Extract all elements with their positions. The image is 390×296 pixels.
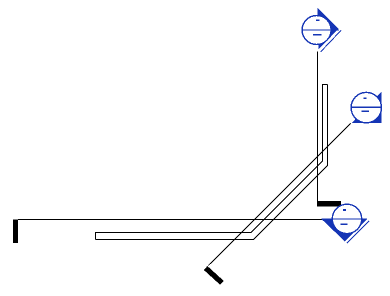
V3 equator line <box>321 218 367 220</box>
V3 circle <box>332 204 361 233</box>
wire: vertical connector from diffuser V1 <box>317 52 319 202</box>
V3 lower dash <box>341 223 348 225</box>
duct side A: left cap, top/left wall <box>96 85 328 240</box>
V1 lower dash <box>313 34 321 36</box>
V2 lower dash <box>362 110 370 112</box>
V3 upper dash <box>343 209 346 211</box>
V2 upper dash <box>364 97 367 99</box>
V1 equator line <box>302 29 339 31</box>
diffuser V2 (right, flow arrow down-right) <box>351 92 382 124</box>
V2 arrow fill <box>352 92 382 124</box>
diffuser V3 (bottom, flow arrow down) <box>321 204 369 243</box>
left duct end tick <box>13 219 18 243</box>
diagonal duct end tick <box>206 268 222 283</box>
V2 circle <box>351 92 381 122</box>
V3 trailing edge outline <box>347 221 369 243</box>
V1 upper dash <box>316 19 320 21</box>
mid duct end tick <box>317 201 341 206</box>
V3 arrow fill <box>321 219 367 241</box>
wire: diagonal connector from diffuser V2 <box>208 123 351 265</box>
wire: horizontal connector to diffuser V3 <box>18 219 322 221</box>
V2 equator line <box>351 106 382 108</box>
V1 trailing edge outline <box>321 30 341 52</box>
V1 circle <box>302 16 331 45</box>
duct side B: bottom/right wall <box>96 85 328 240</box>
V1 arrow fill <box>318 8 339 50</box>
diffuser V1 (top, flow arrow right) <box>302 8 341 52</box>
